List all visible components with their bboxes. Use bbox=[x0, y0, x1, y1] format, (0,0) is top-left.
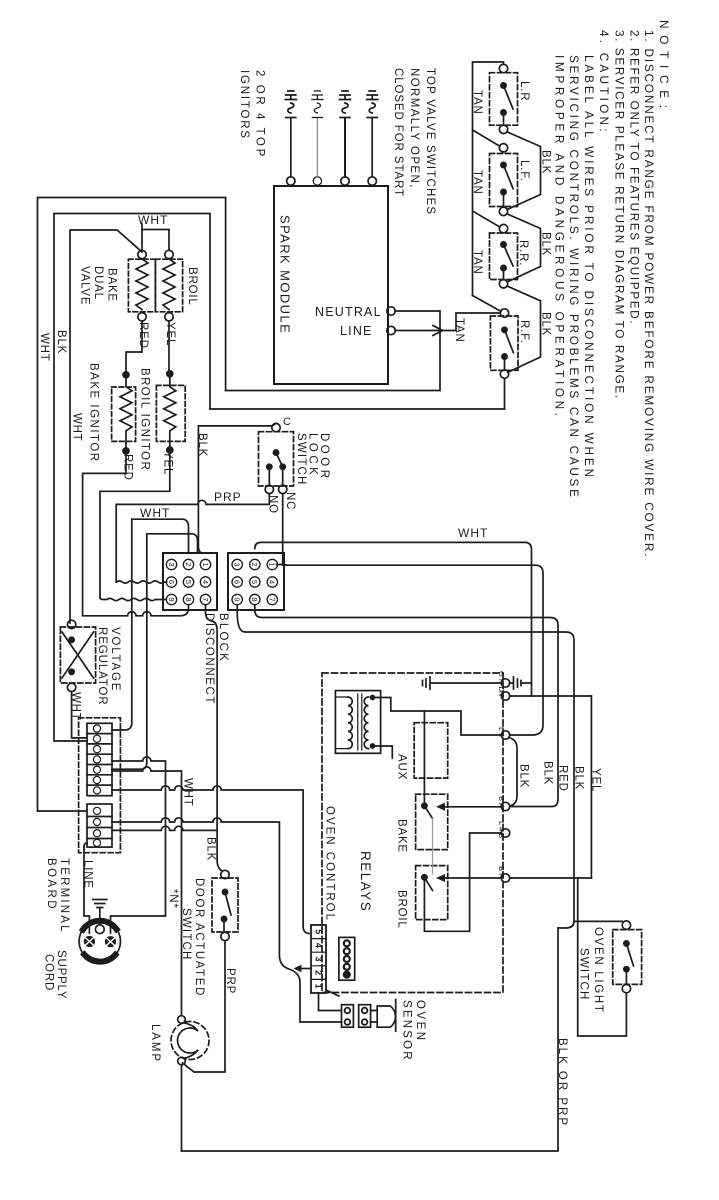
wire WHT feed to dual valve bbox=[70, 230, 142, 623]
svg-text:IMPROPER AND DANGEROUS OPERATI: IMPROPER AND DANGEROUS OPERATION. bbox=[553, 55, 567, 420]
svg-text:WHT: WHT bbox=[458, 526, 488, 540]
wire upper strip to oven control connector pin 5 bbox=[112, 786, 309, 934]
transformer bbox=[335, 691, 380, 754]
svg-text:2: 2 bbox=[313, 970, 323, 975]
oven light switch bbox=[613, 921, 642, 993]
svg-text:LABEL ALL WIRES PRIOR TO DISCO: LABEL ALL WIRES PRIOR TO DISCONNECTION W… bbox=[582, 55, 596, 480]
door actuated switch bbox=[212, 870, 238, 940]
svg-text:PRP: PRP bbox=[214, 490, 242, 504]
svg-text:RED: RED bbox=[137, 322, 149, 349]
svg-text:YEL: YEL bbox=[162, 451, 174, 475]
svg-text:1: 1 bbox=[201, 562, 210, 566]
svg-text:DUAL: DUAL bbox=[92, 266, 104, 300]
ignitor electrode 3 bbox=[340, 91, 351, 185]
svg-text:DISCONNECT: DISCONNECT bbox=[203, 613, 215, 705]
svg-text:YEL: YEL bbox=[164, 322, 176, 346]
svg-text:1: 1 bbox=[268, 562, 277, 566]
wire WHT jog into left block top bbox=[132, 519, 189, 553]
wire pin1 to sensor connector bbox=[319, 993, 342, 1011]
svg-text:C: C bbox=[283, 416, 291, 428]
wire bottom rail BLK OR PRP bbox=[182, 928, 559, 1151]
wire TAN bus to valve switch tops bbox=[473, 62, 504, 296]
ignitor electrode 2 (faint) bbox=[312, 91, 323, 185]
top valve switch L.F. bbox=[490, 144, 518, 216]
wire PRP door lock NO with hop bbox=[116, 494, 269, 582]
svg-text:2: 2 bbox=[250, 562, 259, 566]
wire oven light switch bottom to BR line bbox=[578, 878, 627, 1036]
bus labels bbox=[38, 330, 83, 442]
wire labels right side bbox=[518, 761, 602, 792]
wire R.F. bottom to BLK horizontal bbox=[504, 378, 506, 409]
wire right block pin 7(bottom) to BLK vertical to oven light bbox=[237, 605, 622, 921]
svg-text:RELAYS: RELAYS bbox=[358, 851, 373, 912]
svg-text:3: 3 bbox=[167, 562, 176, 566]
svg-text:OVEN CONTROL: OVEN CONTROL bbox=[324, 806, 336, 922]
oven sensor bulb bbox=[371, 1000, 396, 1032]
wire verticals to terminal board bbox=[112, 519, 132, 730]
svg-text:TERMINAL: TERMINAL bbox=[58, 858, 70, 934]
svg-text:SWITCH: SWITCH bbox=[578, 948, 590, 1001]
svg-text:AUX: AUX bbox=[396, 754, 408, 780]
svg-text:IGNITORS: IGNITORS bbox=[238, 70, 250, 140]
svg-text:BLK: BLK bbox=[542, 761, 554, 785]
spark module terminals NEUTRAL and LINE bbox=[387, 307, 395, 315]
wire L1 run from pin 1 / door lock NC bbox=[277, 565, 544, 736]
svg-text:SPARK MODULE: SPARK MODULE bbox=[278, 215, 293, 334]
wire WHT bus into lower strip bbox=[38, 810, 88, 812]
svg-text:DOOR: DOOR bbox=[318, 433, 330, 482]
svg-text:2. REFER ONLY TO FEATURES EQUI: 2. REFER ONLY TO FEATURES EQUIPPED. bbox=[628, 30, 642, 325]
5-circle connector bbox=[339, 937, 355, 980]
svg-text:7: 7 bbox=[268, 597, 277, 601]
svg-text:3: 3 bbox=[313, 956, 323, 961]
wire BR terminal to right bbox=[510, 877, 592, 879]
wire pin7 to door actuated switch bbox=[206, 605, 223, 871]
lamp bbox=[171, 1016, 209, 1065]
svg-text:5: 5 bbox=[184, 580, 193, 584]
wire right block pin 9 to RED vertical bbox=[255, 605, 558, 807]
wire YEL dual valve to broil ignitor bbox=[168, 321, 170, 371]
svg-text:WHT: WHT bbox=[38, 333, 50, 362]
svg-text:R.F.: R.F. bbox=[518, 320, 530, 344]
svg-text:OVEN: OVEN bbox=[414, 1000, 426, 1043]
wire WHT disconnect block to GND/N junction bbox=[255, 542, 532, 696]
svg-text:2: 2 bbox=[184, 562, 193, 566]
wire L1 to BA (inner BLK) bbox=[509, 738, 517, 807]
oven control 5-pin edge connector bbox=[311, 925, 339, 996]
wire RED dual valve to bake ignitor bbox=[126, 321, 142, 372]
svg-text:DOOR ACTUATED: DOOR ACTUATED bbox=[193, 878, 205, 997]
svg-text:OVEN LIGHT: OVEN LIGHT bbox=[592, 927, 604, 1014]
svg-text:BLK: BLK bbox=[55, 330, 67, 354]
wire RED bake ignitor down then right into disconnect block bbox=[83, 454, 189, 616]
svg-text:BAKE: BAKE bbox=[396, 819, 408, 853]
wire LINE to TAN junction with plug arrow bbox=[395, 330, 441, 332]
svg-text:BLK: BLK bbox=[518, 764, 530, 788]
svg-text:WHT: WHT bbox=[140, 506, 170, 520]
svg-text:NEUTRAL: NEUTRAL bbox=[315, 305, 382, 319]
terminal board lower strip bbox=[87, 804, 112, 847]
svg-text:G N D: G N D bbox=[497, 671, 506, 692]
wire N from upper strip to supply cord bbox=[111, 757, 166, 933]
broil relay bbox=[416, 819, 502, 932]
svg-text:RED: RED bbox=[122, 454, 134, 481]
svg-text:7: 7 bbox=[201, 597, 210, 601]
svg-text:8: 8 bbox=[184, 597, 193, 601]
svg-text:BAKE IGNITOR: BAKE IGNITOR bbox=[88, 363, 100, 463]
wire WHT from upper strip to lamp bbox=[112, 767, 182, 1016]
wire NC down to L1 run bbox=[282, 494, 284, 566]
bake ignitor bbox=[112, 372, 136, 454]
wire YEL broil ignitor down then into disconnect block row bbox=[100, 453, 170, 598]
svg-text:1: 1 bbox=[313, 984, 323, 989]
oven control terminals bbox=[501, 679, 509, 687]
svg-text:CLOSED FOR START: CLOSED FOR START bbox=[392, 68, 404, 197]
svg-text:5: 5 bbox=[313, 929, 323, 934]
wire YEL vertical N to BR line bbox=[590, 696, 592, 878]
svg-text:6: 6 bbox=[233, 580, 242, 584]
svg-text:L 4 B: L 4 B bbox=[497, 821, 506, 838]
svg-text:1. DISCONNECT RANGE FROM POWER: 1. DISCONNECT RANGE FROM POWER BEFORE RE… bbox=[642, 30, 656, 558]
svg-text:BLK: BLK bbox=[573, 766, 585, 790]
svg-text:R.R.: R.R. bbox=[517, 240, 529, 266]
wire lamp bottom to bottom rail bbox=[181, 1065, 183, 1151]
svg-text:WHT: WHT bbox=[182, 778, 194, 807]
svg-text:CORD: CORD bbox=[43, 954, 55, 991]
terminal board upper strip bbox=[87, 723, 112, 795]
svg-text:SERVICING CONTROLS. WIRING PRO: SERVICING CONTROLS. WIRING PROBLEMS CAN … bbox=[567, 55, 581, 500]
valve switch labels bbox=[392, 68, 552, 344]
svg-text:9: 9 bbox=[233, 597, 242, 601]
disconnect block left half bbox=[163, 553, 217, 610]
ignitor electrode 1 bbox=[285, 91, 296, 185]
svg-text:3. SERVICER PLEASE RETURN DIAG: 3. SERVICER PLEASE RETURN DIAGRAM TO RAN… bbox=[613, 30, 627, 400]
svg-text:VOLTAGE: VOLTAGE bbox=[109, 627, 121, 692]
svg-text:4: 4 bbox=[201, 580, 210, 584]
wire pin2 arrow junction bbox=[301, 968, 311, 970]
dual valve (BAKE / BROIL coils) bbox=[128, 250, 182, 321]
svg-text:4: 4 bbox=[313, 943, 323, 948]
svg-text:BROIL: BROIL bbox=[186, 267, 198, 306]
wire WHT bus left bbox=[38, 198, 226, 812]
voltage regulator bbox=[60, 620, 95, 691]
svg-text:BLOCK: BLOCK bbox=[217, 613, 229, 663]
supply cord plug bbox=[79, 921, 120, 962]
svg-text:NC: NC bbox=[284, 492, 296, 510]
svg-text:BLK OR PRP: BLK OR PRP bbox=[556, 1038, 568, 1127]
svg-text:REGULATOR: REGULATOR bbox=[96, 627, 108, 706]
svg-text:N: N bbox=[497, 691, 506, 696]
wire BLK door lock C to disconnect block bbox=[198, 423, 276, 553]
door lock switch bbox=[259, 423, 294, 493]
svg-text:NORMALLY OPEN,: NORMALLY OPEN, bbox=[408, 68, 420, 189]
wire lower strip to oven sensor circuit bbox=[112, 818, 342, 1022]
svg-text:VALVE: VALVE bbox=[79, 266, 91, 305]
svg-text:SENSOR: SENSOR bbox=[401, 1000, 413, 1062]
svg-text:8: 8 bbox=[250, 597, 259, 601]
wire N terminal to YEL vertical bbox=[510, 695, 592, 697]
svg-text:BROIL IGNITOR: BROIL IGNITOR bbox=[139, 368, 151, 471]
svg-text:NOTICE:: NOTICE: bbox=[657, 20, 671, 115]
svg-text:B R: B R bbox=[497, 866, 506, 879]
ignitor electrode 4 bbox=[367, 91, 378, 185]
svg-text:LINE: LINE bbox=[340, 324, 373, 338]
svg-text:LAMP: LAMP bbox=[149, 1024, 161, 1063]
ground at GND terminal inside box bbox=[423, 677, 502, 689]
svg-text:4. CAUTION:: 4. CAUTION: bbox=[597, 30, 611, 135]
svg-text:3: 3 bbox=[233, 562, 242, 566]
wire transformer to L1 bbox=[373, 698, 502, 736]
broil ignitor bbox=[156, 371, 185, 453]
wire BLK bus left bbox=[54, 214, 210, 742]
svg-text:TOP VALVE SWITCHES: TOP VALVE SWITCHES bbox=[424, 68, 436, 215]
svg-text:4: 4 bbox=[268, 580, 277, 584]
svg-text:L.F.: L.F. bbox=[518, 160, 530, 182]
bake relay bbox=[416, 711, 502, 850]
svg-text:SWITCH: SWITCH bbox=[295, 433, 307, 486]
wire BLK horizontal bus under spark module bbox=[210, 408, 505, 410]
svg-text:*N*: *N* bbox=[167, 889, 179, 909]
wire BLK chain valve switch bottoms bbox=[507, 132, 541, 210]
wire LINE lower strip to supply cord bbox=[84, 847, 89, 933]
aux relay bbox=[414, 723, 448, 778]
spark module U1 bbox=[274, 186, 388, 384]
svg-text:L.R: L.R bbox=[518, 81, 530, 101]
svg-text:WHT: WHT bbox=[71, 413, 83, 442]
wire VR bottom to terminal board bbox=[72, 692, 87, 738]
wire BLK lower strip to door actuated switch bbox=[112, 826, 217, 830]
svg-text:LOCK: LOCK bbox=[307, 433, 319, 478]
disconnect block right half bbox=[228, 553, 284, 610]
svg-text:9: 9 bbox=[167, 597, 176, 601]
top valve switch R.F. bbox=[490, 309, 518, 379]
oven sensor connectors bbox=[342, 1005, 371, 1027]
svg-text:2 OR 4 TOP: 2 OR 4 TOP bbox=[254, 70, 266, 159]
svg-text:BROIL: BROIL bbox=[396, 890, 408, 929]
wire BLK OR PRP jog bbox=[558, 921, 574, 928]
svg-text:SWITCH: SWITCH bbox=[180, 908, 192, 961]
svg-text:BLK: BLK bbox=[196, 433, 208, 457]
oven control outline bbox=[322, 673, 503, 993]
svg-text:SUPPLY: SUPPLY bbox=[55, 950, 67, 999]
terminal board dashed outline bbox=[79, 718, 121, 853]
ground symbol above plug bbox=[93, 900, 107, 925]
wire squiggles into left block bbox=[116, 581, 166, 583]
svg-text:B A: B A bbox=[497, 796, 506, 808]
ground symbol right of GND terminal bbox=[510, 677, 532, 689]
svg-text:BOARD: BOARD bbox=[45, 858, 57, 911]
wire WHT bracket above dual valve bbox=[142, 230, 169, 251]
wire NEUTRAL to WHT bbox=[226, 311, 440, 391]
svg-text:6: 6 bbox=[167, 580, 176, 584]
svg-text:RED: RED bbox=[557, 765, 569, 792]
svg-text:BAKE: BAKE bbox=[106, 268, 118, 302]
wire PRP door actuated switch to lamp bbox=[183, 941, 226, 1072]
top valve switch L.R bbox=[490, 64, 518, 133]
svg-text:WHT: WHT bbox=[138, 213, 168, 227]
svg-text:BLK: BLK bbox=[205, 837, 217, 861]
notice text block bbox=[553, 20, 672, 558]
top valve switch R.R. bbox=[490, 224, 518, 288]
svg-text:5: 5 bbox=[250, 580, 259, 584]
